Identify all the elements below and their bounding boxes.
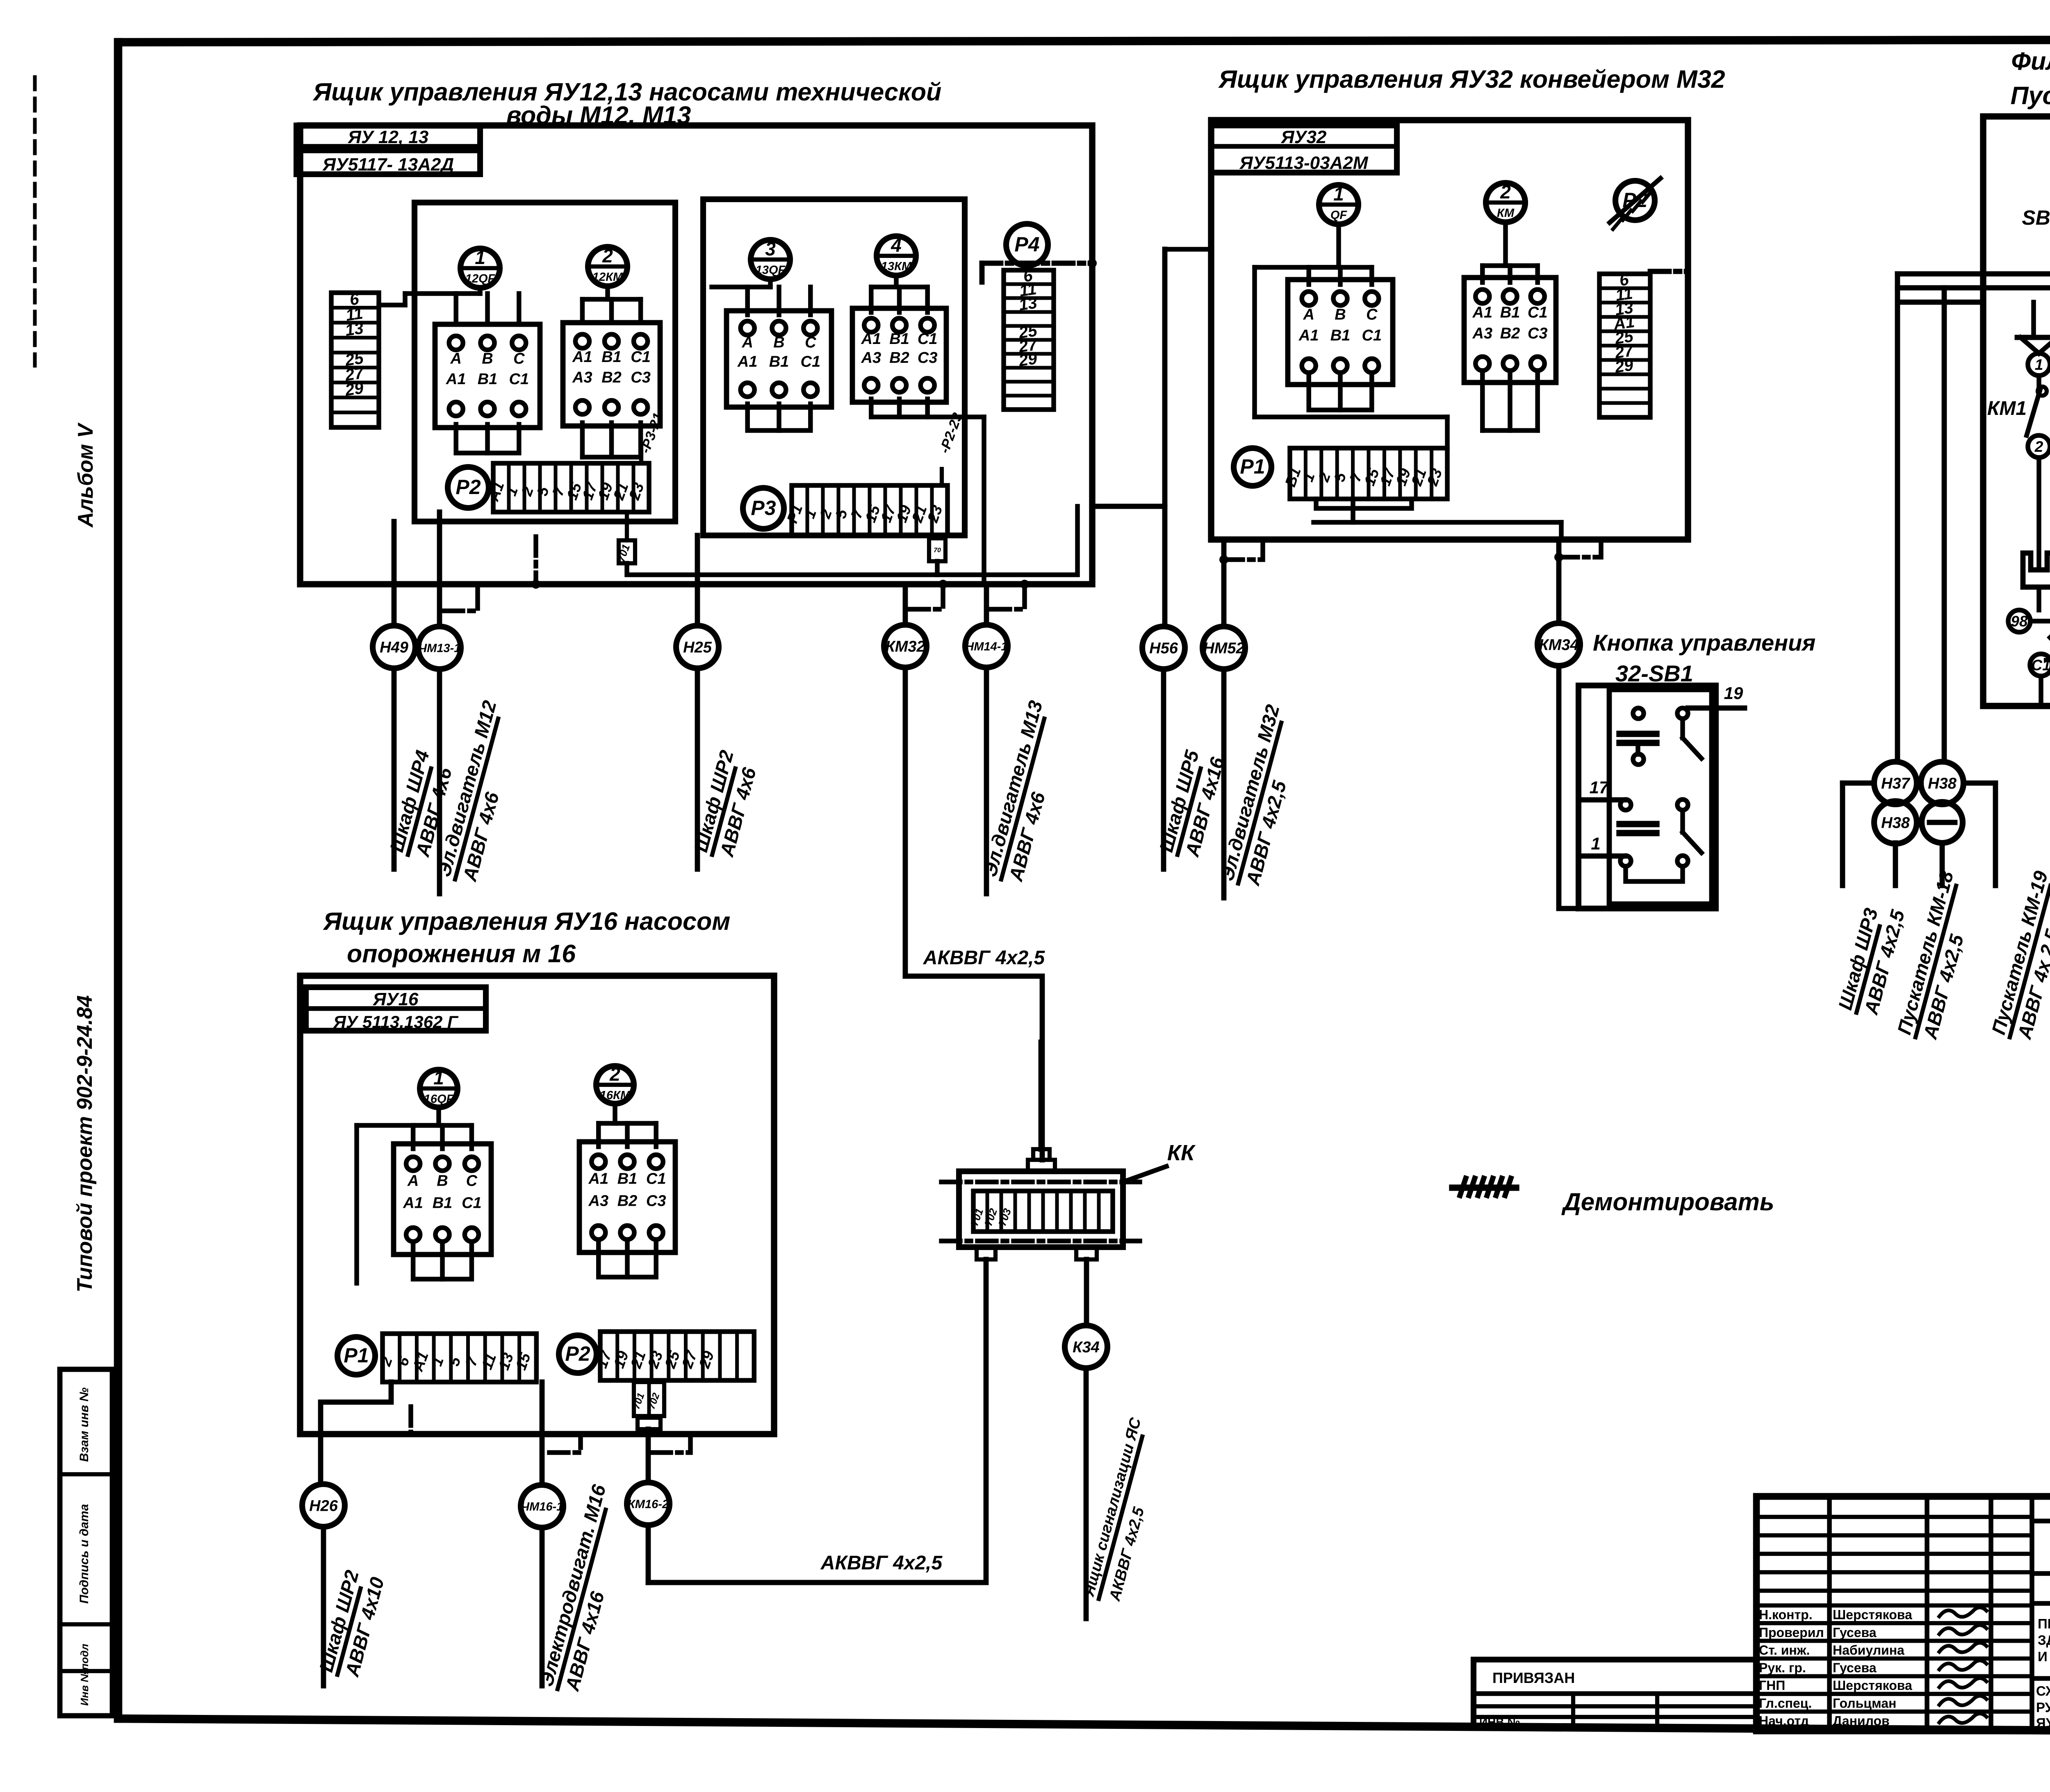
svg-text:Р2: Р2 [565,1342,590,1365]
svg-text:Набиулина: Набиулина [1833,1643,1904,1658]
svg-text:С1: С1 [462,1195,482,1212]
svg-text:ЧМ16-1: ЧМ16-1 [521,1500,563,1513]
svg-text:Н38: Н38 [1928,775,1957,792]
svg-text:С1: С1 [1528,304,1548,321]
svg-text:Ст. инж.: Ст. инж. [1759,1643,1810,1658]
svg-text:2: 2 [602,245,613,266]
svg-text:КМ34: КМ34 [1539,637,1578,654]
svg-text:29: 29 [344,379,365,399]
svg-text:А3: А3 [1472,325,1493,342]
svg-text:А1: А1 [737,353,758,370]
svg-text:Р1: Р1 [344,1344,369,1367]
svg-text:Альбом V: Альбом V [74,422,98,528]
svg-text:17: 17 [1590,778,1609,797]
svg-text:29: 29 [1017,349,1039,370]
svg-text:А1: А1 [588,1170,609,1188]
svg-text:В1: В1 [1500,304,1520,321]
svg-text:Н38: Н38 [1881,815,1910,832]
svg-text:С: С [466,1173,478,1190]
svg-text:А3: А3 [861,349,881,367]
svg-text:Проверил: Проверил [1759,1625,1824,1640]
svg-text:КМ: КМ [1497,207,1515,220]
svg-text:РУДОВАНИЯ ЯЩИК УПРАВЛЕНИЯ: РУДОВАНИЯ ЯЩИК УПРАВЛЕНИЯ [2036,1700,2050,1715]
svg-text:С1: С1 [2031,657,2050,674]
svg-text:В: В [773,334,784,351]
svg-text:КМ32: КМ32 [885,638,925,656]
svg-text:В1: В1 [617,1170,638,1188]
svg-text:В1: В1 [769,353,789,370]
svg-text:13: 13 [344,319,364,339]
svg-text:1: 1 [1591,834,1600,853]
svg-text:Н37: Н37 [1881,775,1911,792]
svg-text:С1: С1 [646,1170,666,1188]
svg-text:1: 1 [433,1067,444,1088]
svg-text:98: 98 [2011,613,2028,630]
svg-text:Р4: Р4 [1014,233,1039,256]
svg-text:2: 2 [1500,181,1511,203]
svg-text:1: 1 [1333,183,1344,205]
svg-text:Р2: Р2 [456,476,481,499]
svg-text:В: В [482,350,493,367]
svg-text:В1: В1 [1330,327,1351,344]
svg-text:Шерстякова: Шерстякова [1833,1678,1912,1693]
svg-text:Н.контр.: Н.контр. [1759,1608,1813,1622]
svg-text:Р1: Р1 [1240,455,1265,478]
svg-text:А1: А1 [861,330,881,348]
svg-text:Гл.спец.: Гл.спец. [1759,1696,1812,1710]
svg-text:ПРОИЗВОДСТВЕННО-ВСПОМОГАТЕЛЬНО: ПРОИЗВОДСТВЕННО-ВСПОМОГАТЕЛЬНОЕ [2038,1616,2050,1631]
svg-text:В2: В2 [601,369,622,386]
svg-text:А1: А1 [403,1195,423,1212]
svg-text:13: 13 [1018,294,1038,314]
svg-text:Ящик управления ЯУ32 конвейеро: Ящик управления ЯУ32 конвейером М32 [1218,65,1725,93]
svg-text:С1: С1 [631,348,651,366]
svg-text:ЯУ5117- 13А2Д: ЯУ5117- 13А2Д [322,155,454,175]
svg-text:А: А [1303,306,1314,323]
svg-text:В: В [437,1173,448,1190]
svg-text:А1: А1 [1472,304,1493,321]
svg-text:С: С [805,334,816,351]
svg-text:В1: В1 [478,371,498,388]
svg-text:1: 1 [2035,356,2043,373]
svg-text:НМ14-1: НМ14-1 [965,640,1007,653]
svg-text:А: А [741,334,753,351]
svg-text:ЯУ32: ЯУ32 [1281,127,1327,147]
svg-text:16КМ: 16КМ [600,1089,631,1102]
svg-text:А1: А1 [1298,327,1319,344]
svg-text:13QF: 13QF [756,264,786,277]
svg-text:Н26: Н26 [309,1498,338,1515]
svg-text:Ящик управления ЯУ16 насосо: Ящик управления ЯУ16 насосом [323,907,731,935]
svg-text:КМ16-2: КМ16-2 [628,1498,669,1511]
svg-text:19: 19 [1724,683,1743,703]
svg-text:А1: А1 [572,348,592,366]
svg-text:В2: В2 [1500,325,1520,342]
svg-text:13КМ: 13КМ [881,260,912,273]
svg-text:К34: К34 [1073,1339,1100,1356]
svg-text:Гусева: Гусева [1833,1660,1877,1675]
svg-text:ЧМ13-1: ЧМ13-1 [419,642,461,655]
svg-text:Гольцман: Гольцман [1833,1696,1896,1710]
svg-text:А: А [450,350,461,367]
svg-text:3: 3 [765,238,776,260]
svg-text:В1: В1 [601,348,622,366]
svg-text:Типовой проект 902-9-24.84: Типовой проект 902-9-24.84 [73,995,97,1292]
svg-text:С1: С1 [509,371,529,388]
svg-text:В1: В1 [433,1195,453,1212]
svg-text:2: 2 [2034,438,2043,455]
svg-text:С: С [513,350,525,367]
svg-text:Демонтировать: Демонтировать [1561,1188,1774,1216]
svg-text:С: С [1366,306,1378,323]
svg-text:ЯУ5113-03А2М: ЯУ5113-03А2М [1239,153,1369,173]
svg-text:Шерстякова: Шерстякова [1833,1608,1912,1622]
svg-text:ЗДАНИЕ С 6 ВОЗДУХОДУВКАМИ ТВ-8: ЗДАНИЕ С 6 ВОЗДУХОДУВКАМИ ТВ-80-1,6 [2038,1633,2050,1648]
svg-text:С1: С1 [918,330,938,348]
svg-text:Пускатель КМ-18; КМ-19: Пускатель КМ-18; КМ-19 [2011,82,2050,109]
svg-text:А3: А3 [572,369,592,386]
svg-text:С1: С1 [801,353,821,370]
svg-text:Подпись и дата: Подпись и дата [77,1504,91,1603]
svg-text:Р3: Р3 [751,496,776,519]
svg-text:А1: А1 [446,371,466,388]
svg-text:12QF: 12QF [465,272,496,285]
svg-text:В2: В2 [617,1193,638,1210]
svg-text:1: 1 [475,247,485,268]
svg-text:С3: С3 [1528,325,1548,342]
svg-text:В2: В2 [889,349,909,367]
svg-text:Взам инв №: Взам инв № [77,1387,91,1462]
svg-text:ИНВ.№: ИНВ.№ [1479,1716,1520,1728]
svg-text:А: А [407,1173,419,1190]
svg-text:2: 2 [609,1063,620,1085]
svg-text:В: В [1335,306,1346,323]
svg-text:В1: В1 [889,330,909,348]
svg-text:СХЕМА ПОДКЛЮЧЕНИЯ ЭЛЕКТРООБО-: СХЕМА ПОДКЛЮЧЕНИЯ ЭЛЕКТРООБО- [2036,1683,2050,1699]
svg-text:Н56: Н56 [1149,640,1178,657]
svg-text:Инв №подл: Инв №подл [78,1644,91,1705]
svg-text:С3: С3 [918,349,938,367]
svg-text:НМ52: НМ52 [1203,640,1244,657]
svg-text:4: 4 [891,235,902,256]
svg-text:12КМ: 12КМ [592,271,623,284]
svg-text:SB1: SB1 [2022,206,2050,229]
svg-text:КК: КК [1167,1141,1196,1165]
svg-text:Нач.отд: Нач.отд [1759,1714,1809,1728]
svg-text:С3: С3 [646,1193,666,1210]
svg-text:ГНП: ГНП [1759,1678,1785,1693]
svg-text:опорожнения м 16: опорожнения м 16 [347,940,576,968]
svg-text:С1: С1 [1362,327,1382,344]
svg-text:И 4 ЦЕНТРИФУГАМИ ОГШ-631К-02: И 4 ЦЕНТРИФУГАМИ ОГШ-631К-02 [2038,1649,2050,1664]
svg-text:АКВВГ 4х2,5: АКВВГ 4х2,5 [820,1552,943,1574]
svg-text:КМ1: КМ1 [1987,398,2027,419]
svg-text:16QF: 16QF [424,1093,454,1106]
svg-text:АКВВГ 4х2,5: АКВВГ 4х2,5 [923,947,1045,969]
svg-text:Гусева: Гусева [1833,1625,1877,1640]
svg-text:Данилов: Данилов [1833,1714,1890,1728]
svg-text:Кнопка управления: Кнопка управления [1593,630,1815,656]
svg-text:ЯУ 12, 13: ЯУ 12, 13 [348,127,428,147]
svg-text:С3: С3 [631,369,651,386]
svg-text:QF: QF [1330,209,1348,222]
svg-text:ЯУ12,13; ЯУ16. ПУСКАТЕЛЬ КМ-18: ЯУ12,13; ЯУ16. ПУСКАТЕЛЬ КМ-18,КМ-19 [2036,1715,2050,1731]
svg-text:Фильтр рулонный М18, М19: Фильтр рулонный М18, М19 [2011,47,2050,75]
svg-text:А3: А3 [588,1193,609,1210]
svg-text:ПРИВЯЗАН: ПРИВЯЗАН [1492,1669,1575,1686]
svg-text:Н49: Н49 [380,639,408,656]
svg-text:Н25: Н25 [683,639,712,656]
svg-text:ЯУ16: ЯУ16 [373,989,419,1009]
svg-text:70: 70 [934,547,941,554]
svg-text:Рук. гр.: Рук. гр. [1759,1660,1806,1675]
svg-text:29: 29 [1613,356,1635,376]
svg-text:ЯУ 5113.1362 Г: ЯУ 5113.1362 Г [333,1012,459,1031]
svg-text:32-SB1: 32-SB1 [1615,660,1693,686]
